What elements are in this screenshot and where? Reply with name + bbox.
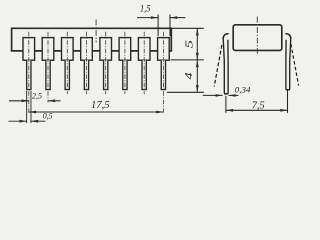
lead 5 bbox=[100, 38, 112, 90]
package vertical axis bbox=[95, 20, 97, 43]
svg-text:1,5: 1,5 bbox=[140, 5, 151, 15]
dimension 5 (body height) bbox=[171, 28, 204, 60]
end view left row lead (with seam tab and splay line) bbox=[214, 34, 228, 94]
svg-text:0,34: 0,34 bbox=[235, 84, 251, 94]
dimension 4 (lead tip length) bbox=[167, 60, 204, 92]
lead 3 bbox=[62, 38, 74, 90]
dimension 2,5 (lead pitch) bbox=[9, 90, 61, 102]
end view: package body bbox=[233, 25, 282, 51]
lead 6 bbox=[119, 38, 131, 90]
front view: DIP package body outline bbox=[11, 28, 172, 52]
lead centerlines (dash-dot) bbox=[29, 32, 164, 114]
dimension 7,5 (lead row spacing) bbox=[226, 91, 288, 113]
svg-text:5: 5 bbox=[184, 40, 195, 48]
end view right row lead (with seam tab and splay line) bbox=[285, 34, 298, 90]
svg-text:2,5: 2,5 bbox=[32, 90, 42, 100]
svg-text:17,5: 17,5 bbox=[91, 100, 110, 111]
lead 2 bbox=[42, 38, 54, 90]
lead 4 bbox=[81, 38, 93, 90]
svg-text:0,5: 0,5 bbox=[43, 112, 53, 121]
dimension 17,5 (lead row span) bbox=[29, 100, 164, 113]
dimension 1,5 (lead shoulder width, top) bbox=[137, 5, 185, 37]
dimension 0,34 (lead thickness) bbox=[203, 84, 251, 96]
lead 7 bbox=[138, 38, 150, 90]
lead 8 bbox=[158, 38, 170, 90]
svg-text:4: 4 bbox=[184, 72, 195, 79]
svg-text:7,5: 7,5 bbox=[252, 100, 265, 111]
lead 1 (wide shoulder + narrow tip) bbox=[23, 38, 35, 90]
end view vertical axis bbox=[256, 17, 258, 55]
dimension 0,5 (lead tip width) bbox=[9, 91, 53, 123]
